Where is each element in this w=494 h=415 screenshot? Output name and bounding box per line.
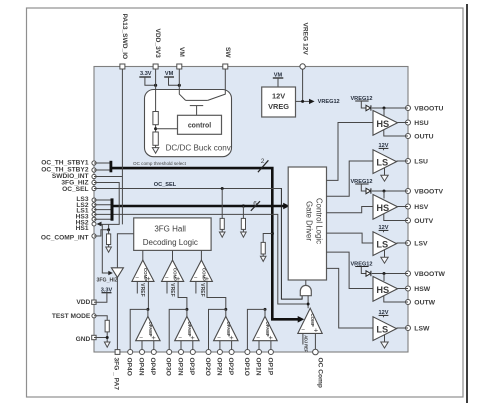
pin OUTW <box>406 300 436 307</box>
svg-text:OUTW: OUTW <box>414 300 435 307</box>
pin HSV <box>406 204 429 211</box>
wire tap down <box>242 206 244 218</box>
wire <box>221 229 223 232</box>
right black border line <box>466 4 468 403</box>
wire <box>242 229 244 232</box>
wire LS2 <box>94 204 111 206</box>
node VM junction <box>178 84 181 87</box>
svg-text:Control LogicGate Driver: Control LogicGate Driver <box>305 198 324 244</box>
node VREG12 <box>301 100 304 103</box>
pin LSV <box>406 241 428 248</box>
pin HS3 <box>76 212 96 220</box>
pin LS1 <box>76 208 96 215</box>
svg-text:−: − <box>301 327 305 334</box>
svg-text:OP3P: OP3P <box>188 358 195 376</box>
ground arrow LS U <box>381 175 388 181</box>
svg-text:OP1P: OP1P <box>266 358 273 376</box>
svg-text:3FG_HIZ: 3FG_HIZ <box>97 278 119 284</box>
pin 3FG_PA7 <box>113 350 120 391</box>
control logic gate driver block U1 <box>288 167 326 280</box>
svg-text:OP3O: OP3O <box>165 358 172 376</box>
label VREG12 W <box>350 261 372 267</box>
svg-text:LSU: LSU <box>414 159 428 166</box>
wire TEST MODE <box>94 316 107 321</box>
12V VREG block <box>262 87 296 117</box>
control box <box>178 115 222 134</box>
bus joiner bar LS/HS <box>111 198 114 220</box>
wire OP2N input <box>219 341 221 350</box>
svg-text:OP1N: OP1N <box>254 358 261 376</box>
label 12V W <box>379 310 389 317</box>
svg-text:LS: LS <box>376 239 388 249</box>
svg-text:−: − <box>256 334 260 341</box>
wire input HS U from control <box>327 123 374 181</box>
wire input HS W from control <box>327 252 374 288</box>
wire HS2 <box>94 218 111 220</box>
pin HSU <box>406 120 429 127</box>
svg-text:OC_SEL: OC_SEL <box>154 182 177 188</box>
op-amp OPAMP4 <box>253 316 277 340</box>
wire LS3 <box>94 199 111 201</box>
wire COMP3 minus input VREF <box>195 281 197 293</box>
pin OUTV <box>406 218 434 225</box>
svg-text:VREG: VREG <box>268 102 289 111</box>
svg-text:VDD: VDD <box>76 299 90 306</box>
pin OP1N <box>254 350 261 376</box>
svg-text:−: − <box>139 334 143 341</box>
svg-text:−: − <box>217 334 221 341</box>
IC main block <box>94 67 408 353</box>
node <box>307 303 310 306</box>
svg-text:HS: HS <box>376 119 389 129</box>
wire tap down <box>221 189 223 219</box>
wire hall box to buffer <box>117 234 133 268</box>
wire bootstrap into HS V <box>383 191 385 199</box>
pin SW <box>223 47 231 69</box>
svg-text:OP3N: OP3N <box>176 358 183 376</box>
ground arrow LS V <box>381 257 388 263</box>
wire bootstrap into HS U <box>383 108 385 116</box>
pin PA13_SWD_IO <box>120 14 128 70</box>
wire VDD to 3.3V <box>94 293 107 303</box>
svg-text:VDD_3V3: VDD_3V3 <box>154 29 161 59</box>
pin VM <box>177 47 185 69</box>
node VBOOTW <box>383 272 386 275</box>
pin OC Comp <box>313 349 324 388</box>
op-amp OPAMP2 <box>175 316 199 340</box>
termination arrow <box>219 232 225 237</box>
wire OC COMP plus input to OC Comp pin <box>314 333 316 349</box>
svg-text:OP2N: OP2N <box>215 358 222 376</box>
node OPAMP4 out <box>264 308 267 311</box>
wire to resistor <box>108 230 110 234</box>
pin OP4N <box>137 350 144 376</box>
bus gate control 6 <box>112 205 284 208</box>
svg-text:OP4O: OP4O <box>126 358 133 376</box>
wire COMP2 plus input <box>178 281 187 309</box>
diode D-V <box>361 184 371 194</box>
svg-text:HSU: HSU <box>414 120 428 127</box>
wire OPAMP2 output to OP3O <box>169 309 187 349</box>
svg-text:VBOOTW: VBOOTW <box>414 271 445 278</box>
arrowhead VREG12 <box>309 99 315 104</box>
wire SWDIO chain <box>94 183 119 225</box>
svg-text:OC comp threshold select: OC comp threshold select <box>133 161 187 166</box>
wire VBOOTV <box>372 190 408 192</box>
arrowhead at HS1 <box>97 222 102 227</box>
wire COMP1 output <box>142 250 144 260</box>
svg-text:VREF: VREF <box>169 283 175 296</box>
wire HS3 <box>94 213 111 215</box>
pin 3FG_HIZ <box>61 179 96 186</box>
pin OP4P <box>149 350 156 376</box>
resistor R-fb2 <box>153 132 158 145</box>
resistor R-tm <box>105 320 109 332</box>
pin OP1O <box>243 350 250 376</box>
pin GND <box>76 335 96 343</box>
wire OC_TH_STBY2 <box>94 169 110 171</box>
node OC_SEL tap <box>221 187 224 190</box>
wire OUTU <box>384 130 408 136</box>
svg-text:LS: LS <box>376 157 388 167</box>
node GND <box>106 336 109 339</box>
svg-text:OP2O: OP2O <box>204 358 211 376</box>
svg-text:OUTU: OUTU <box>414 134 433 141</box>
svg-text:−: − <box>135 275 139 282</box>
svg-text:−: − <box>165 275 169 282</box>
wire enable from 3FG_HIZ pin <box>94 176 122 178</box>
pin OP3P <box>188 350 195 376</box>
node OPAMP3 out <box>224 308 227 311</box>
wire HS3 through line to gate <box>114 214 307 304</box>
bus width slash 2 <box>258 160 269 172</box>
resistor R-fb1 <box>153 112 158 125</box>
wire COMP2 minus input VREF <box>166 281 168 293</box>
wire LS V ground <box>384 250 386 258</box>
svg-text:OC Comp: OC Comp <box>316 358 323 388</box>
wire SW column <box>208 69 226 100</box>
node bus2 tap <box>242 204 245 207</box>
svg-text:VREF: VREF <box>199 283 205 296</box>
wire input LS U from control <box>327 161 374 196</box>
pin OP3N <box>176 350 183 376</box>
pin OP3O <box>165 350 172 376</box>
wire OC_COMP_INT <box>94 224 109 236</box>
pin HS1 <box>76 222 96 232</box>
termination arrow <box>260 256 266 261</box>
wire input LS V from control <box>327 233 374 243</box>
node OC_COMP_INT <box>107 228 110 231</box>
svg-text:DC/DC Buck conv: DC/DC Buck conv <box>166 143 232 152</box>
pin SWDIO_INT <box>52 173 96 180</box>
pin VBOOTV <box>406 189 444 196</box>
svg-text:3FG Hall: 3FG Hall <box>154 225 186 234</box>
diode D-U <box>361 101 371 111</box>
arrowhead enable <box>108 271 113 275</box>
wire OP4N input <box>141 341 143 350</box>
node OPAMP2 out <box>185 308 188 311</box>
svg-text:LSV: LSV <box>414 241 428 248</box>
svg-text:12V: 12V <box>272 92 285 101</box>
pin VBOOTU <box>406 106 444 113</box>
wire OC_SEL <box>94 188 281 190</box>
wire tap to resistor <box>263 234 272 243</box>
DC/DC Buck converter block <box>145 90 232 157</box>
svg-text:GND: GND <box>76 336 91 343</box>
comparator COMP1 <box>132 260 154 281</box>
resistor R-sel <box>220 218 224 229</box>
termination arrow <box>106 247 112 252</box>
svg-text:+: + <box>314 326 319 335</box>
pin TEST MODE <box>52 313 96 320</box>
ground arrow <box>152 148 158 154</box>
wire LS W output <box>397 327 409 329</box>
wire VREG output <box>296 100 310 102</box>
node VBOOTU <box>383 107 386 110</box>
svg-text:control: control <box>188 122 211 129</box>
arrowhead into OC comparator <box>298 316 305 323</box>
3FG Hall Decoding Logic block <box>134 218 211 251</box>
svg-text:LS: LS <box>376 324 388 334</box>
wire <box>108 245 110 248</box>
VM rail symbol for VREG <box>273 73 284 88</box>
wire LS1 <box>94 209 111 211</box>
svg-text:VREF: VREF <box>139 283 145 296</box>
wire GND <box>94 337 107 339</box>
svg-text:HS1: HS1 <box>76 225 89 232</box>
svg-text:VREG12: VREG12 <box>318 99 340 105</box>
wire HS W output <box>398 288 409 290</box>
svg-text:OP4P: OP4P <box>149 358 156 376</box>
svg-text:3FG _ PA7: 3FG _ PA7 <box>113 358 120 391</box>
driver LS U <box>373 150 397 174</box>
svg-text:HSW: HSW <box>414 286 430 293</box>
wire OUTW <box>384 296 408 302</box>
svg-text:HS: HS <box>376 203 389 213</box>
wire LS U ground <box>384 168 386 176</box>
wire input HS V from control <box>327 207 374 213</box>
arrowhead into control logic <box>283 203 290 210</box>
wire <box>106 332 108 342</box>
bus joiner bar STBY <box>110 161 113 173</box>
pin OP1P <box>266 350 273 376</box>
label VREG12 U <box>350 96 372 102</box>
termination arrow <box>241 232 247 237</box>
VM rail symbol <box>164 71 179 85</box>
wire OPAMP3 output to OP2O <box>209 309 226 349</box>
wire VBOOTW <box>372 273 408 275</box>
wire <box>262 254 264 256</box>
pin OC_TH_STBY1 <box>41 160 96 167</box>
pin OP4O <box>126 350 133 376</box>
wire OPAMP1 output to OP4O <box>130 309 148 349</box>
wire HS V output <box>398 206 409 208</box>
svg-text:VREG 12V: VREG 12V <box>301 23 308 56</box>
svg-text:3.3V: 3.3V <box>140 71 152 77</box>
3.3V rail symbol <box>101 287 113 293</box>
wire <box>155 125 157 132</box>
wire OP4P input <box>153 341 155 350</box>
wire VM column <box>179 69 185 100</box>
svg-text:SW: SW <box>224 47 231 58</box>
svg-text:HSV: HSV <box>414 204 428 211</box>
svg-text:OC_SEL: OC_SEL <box>62 186 88 193</box>
pin LSW <box>406 326 430 333</box>
wire OP3N input <box>180 341 182 350</box>
wire LS W ground <box>384 335 386 342</box>
wire HS U output <box>398 122 409 124</box>
node VBOOTV <box>383 190 386 193</box>
wire COMP3 plus input <box>207 281 226 309</box>
wire COMP1 plus input <box>147 281 149 309</box>
driver LS W <box>373 317 397 341</box>
svg-text:6: 6 <box>253 201 257 208</box>
pin OP2P <box>227 350 234 376</box>
svg-text:Decoding Logic: Decoding Logic <box>143 238 198 247</box>
wire OP1P input <box>270 341 272 350</box>
label 12V U <box>379 143 389 150</box>
wire COMP1 minus input VREF <box>136 281 138 293</box>
svg-text:OC_COMP_INT: OC_COMP_INT <box>41 234 89 241</box>
comparator COMP3 <box>190 260 212 281</box>
wire bootstrap into HS W <box>383 274 385 282</box>
svg-text:ADJ REF: ADJ REF <box>303 335 308 352</box>
pin OUTU <box>406 134 434 141</box>
wire OC COMP minus input ADJ REF <box>302 333 304 344</box>
node VDD_3V3 junction <box>154 84 157 87</box>
pin OC_TH_STBY2 <box>41 166 96 173</box>
svg-text:−: − <box>178 334 182 341</box>
wire OPAMP4 output to OP1O <box>247 309 265 349</box>
pin LSU <box>406 159 428 166</box>
wire OP1N input <box>258 341 260 350</box>
comparator OC COMP <box>298 308 322 333</box>
diode D-W <box>361 267 371 277</box>
label 12V V <box>379 225 389 232</box>
wire LS U output <box>397 160 409 162</box>
resistor R-b2 <box>241 218 245 229</box>
pin OC_COMP_INT <box>41 234 96 241</box>
svg-text:OP4N: OP4N <box>137 358 144 376</box>
wire COMP3 output <box>200 250 202 260</box>
pin OP2N <box>215 350 222 376</box>
wire VREG 12V pin column <box>302 69 304 101</box>
node OPAMP1 out <box>146 308 149 311</box>
pin HS2 <box>76 217 96 226</box>
ground arrow <box>104 342 110 347</box>
wire buffer output to 3FG_PA7 <box>116 277 118 349</box>
label VREG12 V <box>350 179 372 185</box>
pin LS3 <box>76 196 96 203</box>
pin VBOOTW <box>406 271 446 278</box>
pin VDD <box>76 299 96 306</box>
pin VDD_3V3 <box>153 29 161 70</box>
wire OUTV <box>384 214 408 221</box>
pin OC_SEL <box>62 186 96 193</box>
bus OC comp threshold select <box>111 168 299 319</box>
wire gate output to block <box>305 280 307 285</box>
pin LS2 <box>76 202 96 209</box>
bus width slash 6 <box>251 201 260 211</box>
svg-text:VBOOTV: VBOOTV <box>414 189 443 196</box>
wire LS V output <box>397 242 409 244</box>
wire gate right input to comparator <box>307 296 309 309</box>
op-amp OPAMP3 <box>214 316 238 340</box>
wire VDD_3V3 column <box>155 69 157 112</box>
wire feedback to control <box>156 128 178 130</box>
svg-text:OP1O: OP1O <box>243 358 250 376</box>
op-amp OPAMP1 <box>136 316 160 340</box>
pin OP2O <box>204 350 211 376</box>
wire OC_TH_STBY1 <box>94 162 110 164</box>
svg-text:OP2P: OP2P <box>227 358 234 376</box>
svg-text:VBOOTU: VBOOTU <box>414 106 443 113</box>
wire VBOOTU <box>372 107 408 109</box>
ground arrow LS W <box>381 342 388 348</box>
transistor pass FET <box>186 100 208 115</box>
resistor R-int <box>107 234 111 245</box>
pin HSW <box>406 286 431 293</box>
node feedback <box>154 127 157 130</box>
svg-text:VM: VM <box>178 47 185 57</box>
driver HS V <box>373 195 398 220</box>
svg-text:2: 2 <box>261 158 265 165</box>
wire COMP2 output <box>172 250 174 260</box>
driver HS W <box>373 277 398 302</box>
driver LS V <box>373 232 397 256</box>
svg-text:LSW: LSW <box>414 326 430 333</box>
buffer 3FG_HIZ tri-state <box>111 268 123 278</box>
wire OP2P input <box>231 341 233 350</box>
node bus1 tap <box>271 232 274 235</box>
3.3V rail symbol <box>139 71 155 85</box>
wire to ground <box>155 145 157 147</box>
resistor R-oc <box>261 242 265 254</box>
wire OP3P input <box>192 341 194 350</box>
svg-text:OUTV: OUTV <box>414 218 433 225</box>
driver HS U <box>373 111 398 136</box>
AND gate <box>300 285 311 295</box>
svg-text:VM: VM <box>165 71 174 77</box>
svg-text:−: − <box>194 275 198 282</box>
svg-text:PA13_SWD_IO: PA13_SWD_IO <box>121 14 128 60</box>
pin VREG 12V <box>300 23 309 70</box>
svg-text:HS: HS <box>376 285 389 295</box>
comparator COMP2 <box>162 260 184 281</box>
wire PA13 column <box>121 69 123 224</box>
svg-text:TEST MODE: TEST MODE <box>52 313 91 320</box>
wire input LS W from control <box>327 268 374 328</box>
